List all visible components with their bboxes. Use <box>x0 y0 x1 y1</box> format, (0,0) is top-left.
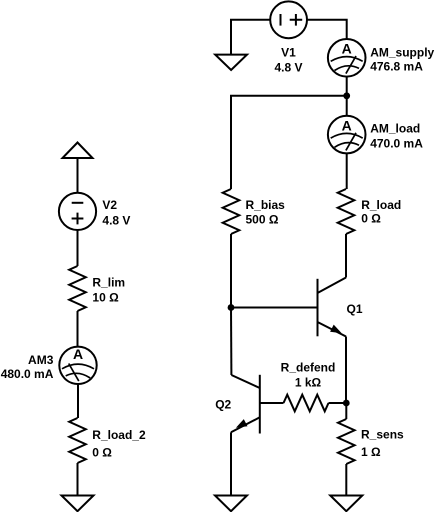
svg-text:Q2: Q2 <box>215 398 231 412</box>
svg-text:A: A <box>73 346 83 362</box>
V1 bar (minus terminal) <box>280 14 282 26</box>
svg-text:0 Ω: 0 Ω <box>361 211 381 225</box>
wire <box>77 384 79 418</box>
svg-text:10 Ω: 10 Ω <box>92 291 119 305</box>
svg-text:0 Ω: 0 Ω <box>92 445 112 459</box>
ground left branch <box>62 496 94 512</box>
svg-text:476.8 mA: 476.8 mA <box>370 60 423 74</box>
transistor Q2 <box>259 375 261 434</box>
resistor R_bias <box>223 189 240 234</box>
V2 minus sign <box>72 202 84 204</box>
junction dot R_defend/R_sens <box>343 400 350 407</box>
svg-text:R_bias: R_bias <box>246 198 286 212</box>
svg-text:R_defend: R_defend <box>281 361 336 375</box>
svg-text:500 Ω: 500 Ω <box>246 213 279 227</box>
resistor R_lim <box>69 266 86 311</box>
wire <box>329 402 347 404</box>
wire <box>345 337 347 404</box>
svg-text:AM_supply: AM_supply <box>370 46 434 60</box>
ground at V1 <box>215 55 247 70</box>
resistor R_defend <box>284 395 329 412</box>
svg-text:R_sens: R_sens <box>361 428 404 442</box>
wire <box>345 403 347 419</box>
wire <box>77 311 79 347</box>
voltage source V1 <box>270 1 307 38</box>
wire <box>346 153 348 189</box>
svg-text:V1: V1 <box>281 46 296 60</box>
svg-text:1 Ω: 1 Ω <box>361 445 381 459</box>
svg-text:4.8 V: 4.8 V <box>102 213 130 227</box>
wire <box>77 230 79 266</box>
svg-text:A: A <box>342 41 352 57</box>
svg-text:Q1: Q1 <box>347 302 363 316</box>
svg-text:AM_load: AM_load <box>370 122 420 136</box>
ammeter AM_supply <box>328 39 366 77</box>
node dot at Q1 base net <box>228 304 235 311</box>
resistor R_sens <box>338 419 355 464</box>
AM_supply needle <box>346 56 356 74</box>
wire Q1 base <box>231 307 318 309</box>
resistor R_load_2 <box>69 418 86 463</box>
voltage source V2 <box>59 193 96 230</box>
wire <box>231 96 347 189</box>
wire <box>345 234 347 278</box>
ground below R_sens <box>330 496 362 512</box>
wire <box>77 158 79 193</box>
Q2 emitter arrowhead <box>236 419 248 428</box>
ground below Q2 <box>215 496 247 512</box>
wire Q2 base <box>260 402 284 404</box>
ammeter AM_load <box>328 116 366 154</box>
ammeter AM3 <box>59 347 96 384</box>
wire <box>230 308 232 376</box>
wire <box>230 234 232 308</box>
wire <box>230 432 232 495</box>
svg-text:470.0 mA: 470.0 mA <box>370 137 423 151</box>
wire <box>231 20 270 55</box>
wire <box>345 464 347 496</box>
svg-text:AM3: AM3 <box>28 353 54 367</box>
AM3 needle <box>69 364 79 382</box>
AM_load needle <box>346 133 356 151</box>
wire <box>346 77 348 116</box>
resistor R_load <box>338 189 355 234</box>
Q1 emitter arrowhead <box>330 325 342 334</box>
V2 plus sign <box>72 213 84 225</box>
svg-text:R_load: R_load <box>361 198 401 212</box>
AM3 meter scale arcs (mirrored) <box>62 364 94 382</box>
transistor Q1 <box>317 279 319 337</box>
power symbol (up arrow) left branch <box>63 143 93 159</box>
svg-text:V2: V2 <box>102 198 117 212</box>
svg-text:R_lim: R_lim <box>92 275 125 289</box>
V1 plus sign <box>290 14 303 26</box>
svg-text:R_load_2: R_load_2 <box>92 428 146 442</box>
svg-text:4.8 V: 4.8 V <box>274 60 302 74</box>
wire <box>307 20 347 39</box>
wire <box>77 463 79 496</box>
svg-text:1 kΩ: 1 kΩ <box>295 376 322 390</box>
svg-text:480.0 mA: 480.0 mA <box>1 367 54 381</box>
node junction dot <box>343 92 350 99</box>
svg-text:A: A <box>342 118 352 134</box>
